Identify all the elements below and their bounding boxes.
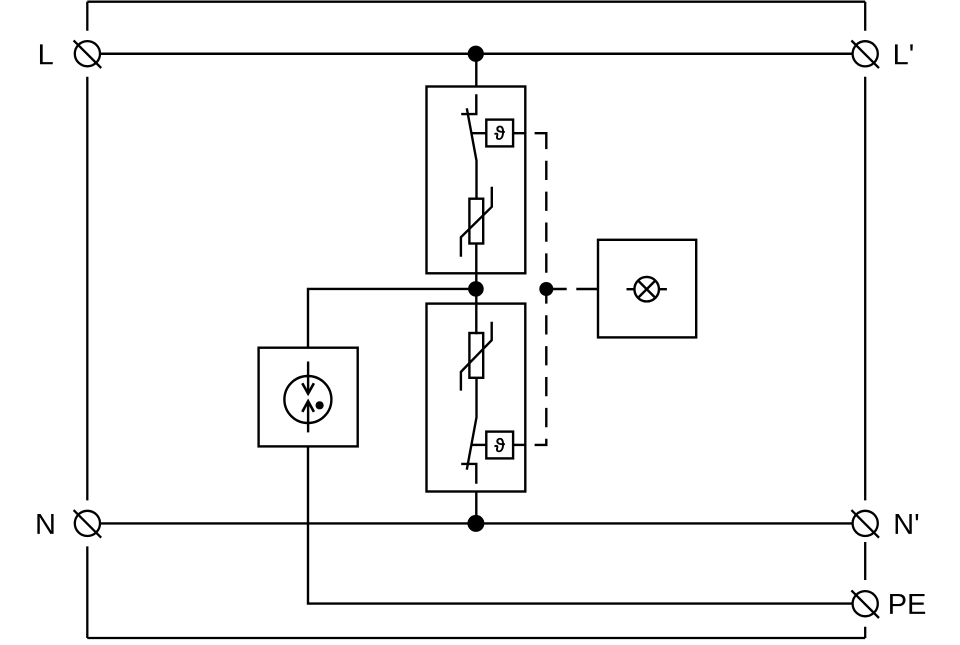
wire top rail to upper box [475,54,477,87]
wire L to L' top rail [100,53,852,55]
lamp circle [634,277,659,302]
lower protection module box [427,304,526,492]
label N [37,514,53,534]
wire sensor to box edge (lower) [513,444,525,446]
wire mid node into lower box [475,289,477,334]
enclosure border right edge [864,2,866,638]
wire to thermal sensor (lower) [471,444,486,446]
upper protection module box [427,87,526,274]
label N' [896,514,919,534]
label L [40,44,53,64]
theta symbol lower sensor [495,438,505,452]
spark gap upper electrode shaft [307,362,309,394]
terminal L' [851,41,879,69]
wire N to N' bottom rail [100,522,852,524]
spark gap box [259,348,358,447]
thermal sensor box (lower) [486,432,513,459]
wire sensor to box edge (upper) [513,132,525,134]
wire lower box to N rail [475,492,477,524]
junction node mid [468,281,484,297]
spark gap circle [284,376,331,423]
terminal N' [851,510,879,538]
thermal disconnect fixed contact (lower) [461,464,476,484]
terminal L [74,40,102,68]
spark gap gas-filled dot [316,401,324,409]
terminal PE [851,590,879,618]
enclosure border left edge [86,2,88,638]
spark gap lower arrowhead [302,401,314,412]
theta symbol upper sensor [495,126,505,140]
label L' [895,44,913,64]
junction node dashed [539,282,553,296]
spark gap lower electrode shaft [307,401,309,432]
terminal N [74,510,102,538]
lamp left lead [627,288,635,290]
thermal disconnect blade (upper) [467,108,477,198]
junction node top rail [468,46,484,62]
thermal disconnect fixed contact (upper) [461,94,476,114]
lamp cross [638,281,655,298]
dashed signal line sensors to node [535,133,547,445]
wire PE riser and PE rail [308,446,853,603]
dashed signal line node to lamp [553,288,597,290]
varistor RV2 strike-through (lower) [461,322,492,391]
lamp right lead [659,288,667,290]
thermal sensor box (upper) [486,120,513,147]
wire mid node to spark gap box [308,289,476,348]
spark gap upper arrowhead [302,383,314,393]
varistor RV1 strike-through (upper) [461,187,492,257]
thermal disconnect blade (lower) [467,378,477,470]
junction node N rail [467,515,484,532]
enclosure border top edge [87,1,865,3]
wire to thermal sensor (upper) [471,132,486,134]
enclosure border bottom edge [87,637,865,639]
varistor RV2 body (lower) [469,333,483,378]
indicator lamp box [598,240,696,338]
label PE [890,594,925,614]
wire varistor to mid node (upper) [475,244,477,289]
varistor RV1 body (upper) [469,199,483,244]
